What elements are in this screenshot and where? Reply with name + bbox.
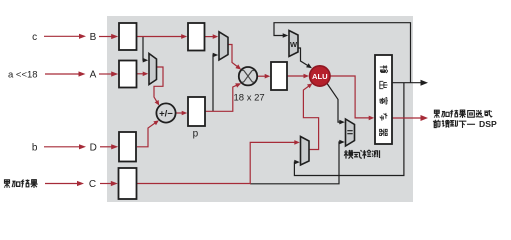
register A [119,61,137,88]
register AD (label p) [188,97,205,126]
equals sign inside comparator M4 [347,131,352,134]
wire adder +/- output into AD register [176,112,184,114]
output register [375,55,392,144]
pre-adder +/- circle [156,103,175,122]
input label accumulate result (CJK) [4,180,9,188]
wire port A label into A register [99,73,115,75]
DSP slice background panel [107,16,413,202]
pattern-detect comparator mux M4 [346,119,355,146]
mux M1 (A/B select) [149,54,157,85]
wire port B label into B register [99,36,115,38]
svg-text:b: b [32,142,38,153]
wire multiplier output into M register [257,75,267,77]
wire C register output up into mux M5 [137,142,297,183]
mux M3 (W mux) [289,31,298,57]
svg-text:c: c [32,32,37,43]
svg-text:p: p [193,128,199,139]
wire input a<<18 to port A label [45,73,82,75]
svg-text:C: C [89,179,96,190]
wire mux M1 output down into adder +/- [154,67,163,103]
wire port D label into D register [100,146,115,148]
wire M register output into ALU [287,75,306,77]
wire port C label into C register [100,183,114,185]
right text line 2 forward to next DSP (CJK) [433,120,441,128]
wire A register to mux M1 [137,73,145,75]
svg-text:B: B [90,32,97,43]
wire AD register output to multiplier lower input [205,84,239,111]
svg-text:a <<18: a <<18 [8,70,38,81]
svg-text:D: D [90,142,97,153]
wire mux M5 output up into ALU bottom-left [303,85,318,150]
register M [271,62,287,90]
wire bottom C-net over to pattern-detect comparator lower input [250,142,342,184]
wire AD-line tap up to mux M2 lower input [213,55,215,111]
wire feedback from output line up and left into mux M3 (W) [274,23,411,83]
wire B-register tap down to mux M1 upper input [143,37,145,61]
wire input b to port D label [44,146,83,148]
label output register vertical (CJK) [380,65,388,73]
register D [119,132,136,162]
mux M2 (multiplier input select) [219,32,228,60]
wire B register to second register [137,36,184,38]
ALU circle [310,66,330,86]
wire input c to port B label [44,35,83,37]
wire ALU output right and down into output register [330,76,371,118]
wire output register red result arrow [392,117,424,119]
wire mux M3 output down into ALU top-left [298,48,310,67]
svg-text:W: W [290,40,298,49]
svg-text:DSP: DSP [479,119,497,129]
svg-text:ALU: ALU [312,72,328,81]
register B [119,23,137,50]
wire mux M2 output down into multiplier [228,45,239,68]
svg-text:+/−: +/− [159,108,173,119]
svg-text:A: A [90,70,97,81]
label pattern detect (CJK) [344,150,353,159]
wire output feedback down and left into mux M5 lower input [294,83,404,176]
wire input accumulate-result to port C label [45,183,81,185]
wire output register black result arrow [392,82,424,84]
wire ALU output down to pattern-detect comparator upper input [327,83,342,122]
label X inside multiplier [242,70,254,82]
wire second register to mux M2 [205,36,215,38]
svg-text:18 x 27: 18 x 27 [234,93,265,104]
multiplier X circle [239,67,257,85]
register C [119,168,137,199]
mux M5 (C / feedback select) [301,137,310,166]
wire D register up into adder +/- [137,122,157,147]
right text line 1 accumulate result fed back (CJK) [434,110,439,118]
register B2 (second B pipeline register) [188,23,205,51]
